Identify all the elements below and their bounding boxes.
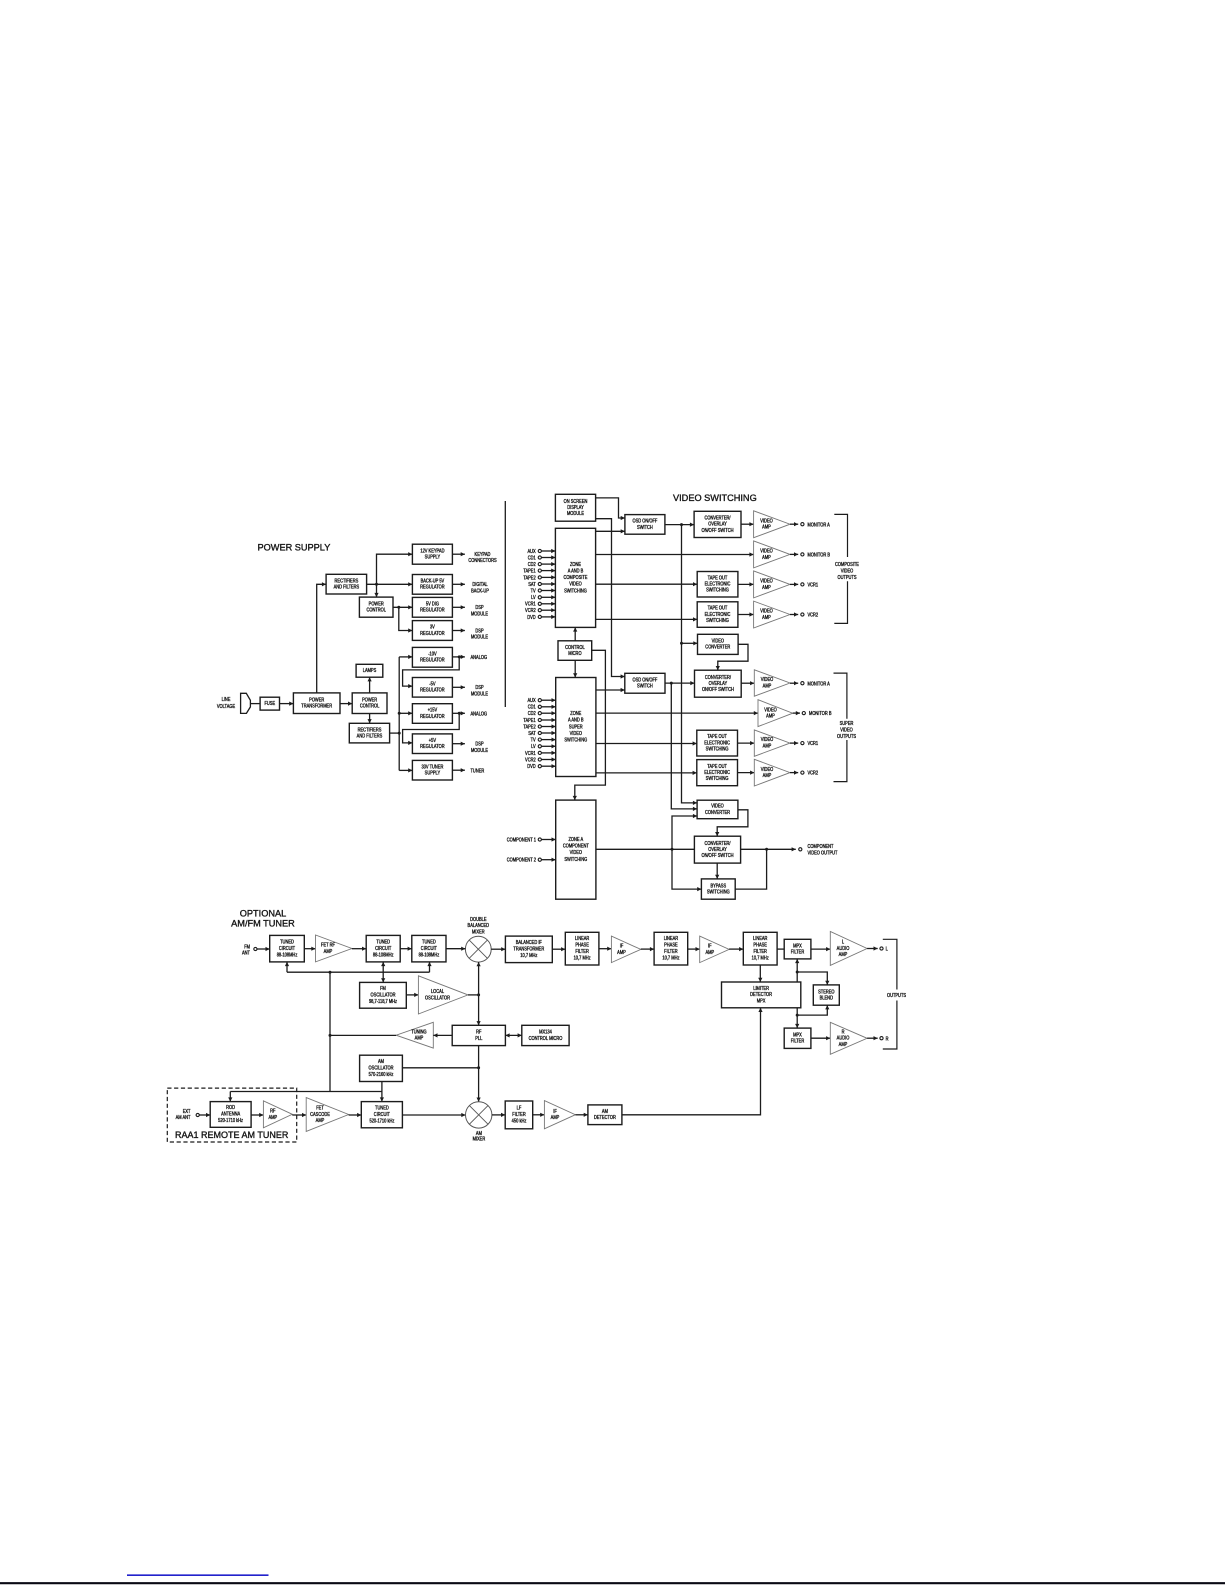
wire junction up to video converter 2 bottom input bbox=[672, 814, 697, 849]
svg-text:RECTIFIERS: RECTIFIERS bbox=[358, 727, 382, 733]
wire RF PLL down to AM mixer bbox=[477, 1046, 481, 1102]
block STEREO BLEND bbox=[813, 985, 839, 1005]
svg-text:TAPE OUT: TAPE OUT bbox=[708, 575, 728, 581]
svg-text:IF: IF bbox=[553, 1108, 557, 1114]
svg-text:ELECTRONIC: ELECTRONIC bbox=[704, 740, 730, 746]
input EXT AM ANT label bbox=[176, 1108, 191, 1120]
svg-text:DIGITAL: DIGITAL bbox=[472, 582, 488, 588]
svg-text:CONVERTER/: CONVERTER/ bbox=[704, 515, 731, 521]
video amp (composite monitor B) bbox=[754, 541, 790, 568]
svg-text:AMP: AMP bbox=[324, 948, 333, 954]
svg-text:CONTROL: CONTROL bbox=[366, 607, 386, 613]
svg-text:FUSE: FUSE bbox=[264, 701, 275, 707]
wire AM oscillator to PLL line bbox=[402, 1067, 478, 1069]
svg-text:CONVERTER: CONVERTER bbox=[705, 809, 731, 815]
amp RF AMP (AM) bbox=[263, 1101, 292, 1128]
svg-text:KEYPAD: KEYPAD bbox=[475, 552, 492, 558]
svg-text:CONVERTER/: CONVERTER/ bbox=[705, 674, 732, 680]
svg-text:SWITCHING: SWITCHING bbox=[564, 737, 587, 743]
junction bbox=[458, 655, 461, 658]
svg-text:OUTPUTS: OUTPUTS bbox=[837, 733, 856, 739]
wire to DSP module bbox=[452, 685, 465, 689]
video amp (composite VCR1) bbox=[754, 571, 790, 598]
block TAPE OUT ELECTRONIC SWITCHING (VCR2) bbox=[697, 602, 738, 628]
wire bypass output loop bbox=[735, 849, 766, 889]
block LAMPS bbox=[356, 664, 383, 677]
label MONITOR B bbox=[809, 711, 832, 717]
block POWER CONTROL (upper) bbox=[359, 597, 393, 617]
wire IF amp 2 to linear phase filter 3 bbox=[729, 947, 743, 951]
block POWER CONTROL (main) bbox=[352, 693, 387, 714]
svg-text:DSP: DSP bbox=[475, 628, 483, 634]
svg-text:AM ANT: AM ANT bbox=[176, 1115, 191, 1121]
svg-text:CD1: CD1 bbox=[528, 555, 536, 561]
junction bbox=[477, 993, 480, 996]
mixer AM mixer bbox=[466, 1102, 492, 1128]
block TAPE OUT ELECTRONIC SWITCHING (super VCR2) bbox=[697, 760, 738, 786]
svg-text:LF: LF bbox=[517, 1105, 522, 1111]
block TUNED CIRCUIT 2 88-108MHz bbox=[366, 935, 400, 962]
svg-text:REGULATOR: REGULATOR bbox=[420, 657, 445, 663]
svg-text:VIDEO: VIDEO bbox=[570, 730, 583, 736]
svg-text:AND FILTERS: AND FILTERS bbox=[334, 584, 360, 590]
wire tuned circuit 3 to mixer bbox=[446, 947, 465, 951]
svg-text:VCR1: VCR1 bbox=[525, 750, 536, 756]
wire control micro to zone composite bbox=[573, 627, 577, 640]
wire plug to fuse bbox=[250, 703, 260, 705]
wire limiter to MPX filter L and stereo blend bbox=[795, 959, 799, 982]
block RECTIFIERS AND FILTERS (lower) bbox=[349, 723, 389, 743]
svg-text:OSCILLATOR: OSCILLATOR bbox=[371, 992, 397, 998]
svg-text:VIDEO: VIDEO bbox=[761, 737, 774, 743]
svg-text:SUPPLY: SUPPLY bbox=[425, 770, 440, 776]
svg-text:VIDEO: VIDEO bbox=[569, 581, 582, 587]
svg-text:AUDIO: AUDIO bbox=[837, 945, 850, 951]
svg-text:98,7-118,7 MHz: 98,7-118,7 MHz bbox=[369, 999, 398, 1005]
block CONVERTER OVERLAY ON/OFF SWITCH (composite) bbox=[694, 511, 741, 537]
svg-text:ELECTRONIC: ELECTRONIC bbox=[705, 611, 731, 617]
svg-text:CONNECTORS: CONNECTORS bbox=[468, 558, 496, 564]
svg-text:MPX: MPX bbox=[793, 1032, 802, 1038]
svg-text:CONVERTER: CONVERTER bbox=[705, 644, 731, 650]
terminal VCR2 bbox=[801, 613, 804, 616]
wire control micro to zone component bbox=[573, 650, 606, 800]
svg-text:ON SCREEN: ON SCREEN bbox=[564, 498, 588, 504]
svg-text:AMP: AMP bbox=[839, 1041, 848, 1047]
svg-text:520-1710 kHz: 520-1710 kHz bbox=[218, 1118, 243, 1124]
svg-text:ANTENNA: ANTENNA bbox=[221, 1111, 240, 1117]
svg-text:CONTROL MICRO: CONTROL MICRO bbox=[529, 1035, 563, 1041]
block VIDEO CONVERTER (2) bbox=[697, 800, 738, 819]
wire converter overlay 3 to bypass switching bbox=[715, 863, 719, 879]
svg-text:VCR2: VCR2 bbox=[808, 612, 819, 618]
svg-text:COMPONENT 1: COMPONENT 1 bbox=[507, 837, 537, 843]
wire zone component to converter overlay 3 bbox=[596, 848, 695, 850]
wire amp output bbox=[790, 612, 798, 616]
block +5V REGULATOR bbox=[412, 734, 452, 754]
terminal FM ANT bbox=[254, 947, 257, 950]
svg-text:VOLTAGE: VOLTAGE bbox=[217, 704, 235, 710]
wire to video converter 1 bbox=[682, 641, 698, 645]
svg-text:CIRCUIT: CIRCUIT bbox=[279, 945, 295, 951]
video amp (composite monitor A) bbox=[754, 511, 790, 538]
svg-text:ZONE: ZONE bbox=[570, 561, 581, 567]
wire AM oscillator to AM tuned circuit bbox=[380, 1082, 384, 1102]
svg-text:MICRO: MICRO bbox=[568, 650, 582, 656]
svg-text:SWITCHING: SWITCHING bbox=[706, 587, 729, 593]
block ROD ANTENNA 520-1710 kHz bbox=[210, 1102, 251, 1128]
svg-text:A AND B: A AND B bbox=[568, 568, 584, 574]
wire amp output bbox=[793, 711, 800, 715]
svg-text:DISPLAY: DISPLAY bbox=[567, 505, 584, 511]
junction bbox=[329, 971, 332, 974]
label OUTPUTS bbox=[887, 993, 906, 999]
junction bbox=[458, 712, 461, 715]
wire tape out to video amp VCR2 bbox=[738, 612, 754, 616]
svg-text:LINE: LINE bbox=[222, 697, 231, 703]
svg-text:CONTROL: CONTROL bbox=[565, 644, 585, 650]
label MONITOR B bbox=[808, 552, 831, 558]
wire power control to 5V dig regulator bbox=[393, 605, 412, 609]
svg-text:LINEAR: LINEAR bbox=[753, 936, 768, 942]
svg-text:VIDEO: VIDEO bbox=[760, 578, 773, 584]
block 3V REGULATOR bbox=[412, 621, 452, 641]
svg-text:TUNED: TUNED bbox=[376, 939, 390, 945]
svg-text:MX134: MX134 bbox=[539, 1029, 552, 1035]
svg-text:AMP: AMP bbox=[762, 524, 771, 530]
block TUNED CIRCUIT AM 520-1710 kHz bbox=[361, 1102, 402, 1128]
svg-text:RF: RF bbox=[476, 1029, 482, 1035]
svg-text:ANALOG: ANALOG bbox=[471, 711, 488, 717]
wire feedback to tuned circuit 2 bbox=[381, 962, 385, 972]
section divider line bbox=[504, 501, 506, 707]
svg-text:SUPER: SUPER bbox=[840, 720, 854, 726]
svg-text:CONVERTER/: CONVERTER/ bbox=[704, 840, 731, 846]
terminal MONITOR A bbox=[801, 523, 804, 526]
svg-text:LV: LV bbox=[531, 744, 536, 750]
svg-text:CIRCUIT: CIRCUIT bbox=[374, 1112, 390, 1118]
svg-text:FILTER: FILTER bbox=[753, 949, 767, 955]
bracket super video outputs bbox=[834, 673, 847, 782]
wire OSD module to OSD switch 1 bbox=[596, 498, 625, 520]
svg-text:AMP: AMP bbox=[268, 1114, 277, 1120]
svg-text:ELECTRONIC: ELECTRONIC bbox=[704, 770, 730, 776]
wire feedback to tuned circuit 1 bbox=[285, 962, 289, 972]
wire zone super to OSD switch 2 bbox=[596, 688, 625, 692]
wire AM tuned circuit to AM mixer bbox=[402, 1113, 465, 1117]
svg-text:SAT: SAT bbox=[528, 581, 536, 587]
svg-text:10,7 MHz: 10,7 MHz bbox=[520, 953, 538, 959]
svg-text:OSD ON/OFF: OSD ON/OFF bbox=[632, 518, 657, 524]
svg-text:AMP: AMP bbox=[763, 773, 772, 779]
terminal MONITOR A super bbox=[801, 682, 804, 685]
svg-text:MODULE: MODULE bbox=[471, 691, 488, 697]
svg-text:LAMPS: LAMPS bbox=[363, 668, 377, 674]
svg-text:BACK-UP: BACK-UP bbox=[471, 588, 489, 594]
svg-text:OSD ON/OFF: OSD ON/OFF bbox=[632, 677, 657, 683]
label RAA1 REMOTE AM TUNER bbox=[175, 1130, 289, 1140]
svg-text:AM/FM TUNER: AM/FM TUNER bbox=[231, 919, 295, 929]
svg-text:CASCODE: CASCODE bbox=[310, 1111, 330, 1117]
wire mixer to balanced IF transformer bbox=[491, 947, 505, 951]
wire LF filter to IF amp bbox=[533, 1113, 545, 1117]
wire converter overlay 3 to component output bbox=[741, 847, 796, 851]
svg-text:33V TUNER: 33V TUNER bbox=[421, 764, 444, 770]
svg-text:PHASE: PHASE bbox=[753, 942, 767, 948]
wire junction to stereo blend bottom bbox=[797, 1005, 829, 1015]
svg-text:TAPE OUT: TAPE OUT bbox=[708, 605, 728, 611]
wire power control to 3V regulator bbox=[399, 607, 413, 632]
FM tuning feedback line bbox=[287, 971, 430, 973]
junction bbox=[477, 1066, 480, 1069]
svg-text:DVD: DVD bbox=[527, 614, 536, 620]
amp IF AMP 1 bbox=[611, 936, 640, 963]
wire amp output bbox=[790, 522, 798, 526]
video amp (composite VCR2) bbox=[754, 601, 790, 628]
svg-text:FET: FET bbox=[316, 1105, 324, 1111]
svg-text:OSCILLATOR: OSCILLATOR bbox=[425, 995, 451, 1001]
svg-text:LINEAR: LINEAR bbox=[575, 936, 590, 942]
block ZONE A AND B SUPER VIDEO SWITCHING bbox=[556, 678, 596, 777]
wire feedback to rod antenna bbox=[228, 1092, 232, 1102]
svg-text:LINEAR: LINEAR bbox=[664, 936, 679, 942]
svg-text:88-108MHz: 88-108MHz bbox=[277, 952, 298, 958]
label DSP MODULE bbox=[471, 628, 488, 640]
svg-text:-10V: -10V bbox=[428, 651, 436, 657]
block TAPE OUT ELECTRONIC SWITCHING (VCR1) bbox=[697, 572, 738, 598]
block MPX FILTER (L) bbox=[784, 939, 811, 959]
svg-text:LV: LV bbox=[531, 595, 536, 601]
svg-text:LOCAL: LOCAL bbox=[431, 989, 445, 995]
junction bbox=[680, 642, 683, 645]
svg-text:COMPOSITE: COMPOSITE bbox=[835, 562, 859, 568]
wire rectifiers lower to bus bbox=[390, 732, 400, 734]
video amp (super VCR2) bbox=[754, 759, 790, 786]
block ZONE A COMPONENT VIDEO SWITCHING bbox=[556, 800, 596, 899]
footer blue rule bbox=[127, 1574, 269, 1576]
wire FET RF amp to tuned circuit 2 bbox=[352, 947, 366, 951]
wire AM detector to limiter detector MPX bbox=[622, 1008, 763, 1115]
label VCR1 bbox=[808, 582, 819, 588]
wire +15V to +5V regulator bbox=[403, 713, 460, 745]
block +15V REGULATOR bbox=[412, 704, 452, 724]
wire FM ant to tuned circuit 1 bbox=[257, 947, 270, 951]
wire FM oscillator to local oscillator bbox=[406, 993, 418, 997]
terminal COMPONENT VIDEO OUTPUT bbox=[799, 848, 802, 851]
junction bbox=[398, 712, 401, 715]
svg-text:SWITCHING: SWITCHING bbox=[564, 588, 587, 594]
wire IF amp to AM detector bbox=[575, 1113, 588, 1117]
svg-text:REGULATOR: REGULATOR bbox=[420, 687, 445, 693]
svg-text:VIDEO SWITCHING: VIDEO SWITCHING bbox=[673, 493, 757, 503]
wire L amp output bbox=[867, 946, 878, 950]
svg-text:TRANSFORMER: TRANSFORMER bbox=[301, 703, 332, 709]
wire to keypad connectors bbox=[452, 552, 465, 556]
power bus vertical bbox=[398, 657, 400, 771]
svg-text:AUDIO: AUDIO bbox=[837, 1035, 850, 1041]
wire to IF amp 1 bbox=[599, 947, 612, 951]
svg-text:VIDEO: VIDEO bbox=[711, 803, 724, 809]
svg-text:ZONE A: ZONE A bbox=[568, 837, 583, 843]
wire junction to stereo blend top bbox=[797, 972, 829, 985]
svg-text:MPX: MPX bbox=[793, 943, 802, 949]
svg-text:FM: FM bbox=[380, 986, 386, 992]
svg-text:MPX: MPX bbox=[757, 998, 766, 1004]
svg-text:FM: FM bbox=[244, 944, 250, 950]
svg-text:VIDEO: VIDEO bbox=[760, 518, 773, 524]
svg-text:MODULE: MODULE bbox=[471, 611, 488, 617]
svg-text:MONITOR B: MONITOR B bbox=[808, 552, 831, 558]
svg-text:VIDEO: VIDEO bbox=[712, 638, 725, 644]
wire control micro to zone super bbox=[573, 660, 577, 677]
wire OSD switch 2 to converter overlay 2 bbox=[665, 681, 695, 685]
wire amp output bbox=[790, 552, 798, 556]
svg-text:AMP: AMP bbox=[763, 743, 772, 749]
junction bbox=[398, 732, 401, 735]
svg-text:EXT: EXT bbox=[183, 1108, 191, 1114]
svg-text:CD1: CD1 bbox=[528, 704, 536, 710]
svg-text:VIDEO OUTPUT: VIDEO OUTPUT bbox=[808, 850, 838, 856]
svg-text:ROD: ROD bbox=[226, 1105, 236, 1111]
terminal VCR1 bbox=[801, 583, 804, 586]
label DSP MODULE bbox=[471, 605, 488, 617]
wire filter 3 to MPX filter bbox=[777, 948, 784, 950]
svg-text:VIDEO: VIDEO bbox=[764, 707, 777, 713]
svg-text:520-1710 kHz: 520-1710 kHz bbox=[369, 1118, 394, 1124]
svg-text:BYPASS: BYPASS bbox=[710, 883, 726, 889]
svg-text:CIRCUIT: CIRCUIT bbox=[375, 945, 391, 951]
block OSD ON/OFF SWITCH (super) bbox=[625, 673, 665, 693]
junction bbox=[680, 523, 683, 526]
block OSD ON/OFF SWITCH (composite) bbox=[625, 515, 665, 535]
terminal VCR2 super bbox=[801, 771, 804, 774]
wire bus to 30V tuner supply bbox=[399, 768, 412, 772]
video amp (super monitor B) bbox=[758, 700, 793, 727]
wire video converter to converter overlay 2 bbox=[716, 644, 748, 670]
svg-text:COMPONENT 2: COMPONENT 2 bbox=[507, 857, 537, 863]
svg-text:SWITCH: SWITCH bbox=[637, 683, 653, 689]
label MONITOR A bbox=[808, 681, 830, 687]
block VIDEO CONVERTER (1) bbox=[698, 634, 739, 654]
svg-text:AMP: AMP bbox=[762, 615, 771, 621]
wire IF amp 1 to linear phase filter 2 bbox=[641, 947, 654, 951]
svg-text:TV: TV bbox=[531, 588, 536, 594]
svg-text:TAPE2: TAPE2 bbox=[523, 724, 536, 730]
block LINEAR PHASE FILTER 1 10,7 MHz bbox=[565, 932, 599, 965]
svg-text:VCR1: VCR1 bbox=[525, 601, 536, 607]
bracket composite video outputs bbox=[834, 514, 847, 623]
wire bus to +15V regulator bbox=[399, 711, 412, 715]
wire to digital backup bbox=[452, 582, 465, 586]
label DOUBLE BALANCED MIXER bbox=[468, 916, 490, 934]
svg-text:RF: RF bbox=[270, 1108, 276, 1114]
junction bbox=[796, 971, 799, 974]
wire zone composite to tape out 1 bbox=[596, 582, 698, 586]
svg-text:AM: AM bbox=[378, 1059, 384, 1065]
svg-text:88-108MHz: 88-108MHz bbox=[373, 952, 394, 958]
block LINEAR PHASE FILTER 2 10,7 MHz bbox=[654, 932, 688, 965]
svg-text:-5V: -5V bbox=[429, 681, 435, 687]
svg-text:MONITOR A: MONITOR A bbox=[808, 681, 830, 687]
svg-text:COMPOSITE: COMPOSITE bbox=[564, 575, 588, 581]
label TUNER bbox=[471, 768, 485, 774]
tuning voltage vertical line bbox=[329, 972, 331, 1091]
wire OSD module to OSD switch 2 bbox=[596, 519, 625, 679]
svg-text:AUX: AUX bbox=[527, 548, 535, 554]
block BALANCED IF TRANSFORMER 10,7 MHz bbox=[505, 936, 552, 963]
wire EXT AM ant to rod antenna bbox=[199, 1113, 210, 1117]
svg-text:AND FILTERS: AND FILTERS bbox=[357, 733, 383, 739]
svg-text:OUTPUTS: OUTPUTS bbox=[837, 575, 856, 581]
svg-text:TUNED: TUNED bbox=[375, 1105, 389, 1111]
wire amp output bbox=[790, 741, 798, 745]
node LINE VOLTAGE label bbox=[217, 697, 235, 710]
svg-text:VIDEO: VIDEO bbox=[840, 727, 853, 733]
svg-text:SUPPLY: SUPPLY bbox=[425, 554, 440, 560]
svg-text:TV: TV bbox=[531, 737, 536, 743]
junction bbox=[329, 1034, 332, 1037]
block LINEAR PHASE FILTER 3 10,7 MHz bbox=[743, 932, 777, 965]
label VCR2 bbox=[808, 612, 819, 618]
svg-text:VCR1: VCR1 bbox=[808, 582, 819, 588]
block CONVERTER OVERLAY ON/OFF SWITCH (component) bbox=[694, 836, 740, 863]
amp TUNING AMP bbox=[396, 1022, 433, 1048]
label DIGITAL BACK-UP bbox=[471, 582, 489, 594]
block CONVERTER OVERLAY ON/OFF SWITCH (super) bbox=[695, 670, 742, 697]
wire to DSP module bbox=[452, 628, 465, 632]
label ANALOG bbox=[471, 711, 488, 717]
mixer FM double balanced mixer bbox=[465, 936, 491, 962]
block AM OSCILLATOR 570-2160 kHz bbox=[360, 1055, 403, 1081]
svg-text:SWITCH: SWITCH bbox=[637, 524, 653, 530]
svg-text:VIDEO: VIDEO bbox=[761, 766, 774, 772]
block BACK-UP 5V REGULATOR bbox=[412, 575, 452, 595]
video amp (super VCR1) bbox=[754, 730, 790, 756]
svg-text:MIXER: MIXER bbox=[473, 1136, 486, 1142]
svg-text:RECTIFIERS: RECTIFIERS bbox=[335, 578, 359, 584]
bracket outputs bbox=[883, 939, 897, 1049]
svg-text:FILTER: FILTER bbox=[791, 1038, 805, 1044]
block POWER TRANSFORMER bbox=[293, 693, 340, 714]
block LIMITER DETECTOR MPX bbox=[722, 982, 801, 1008]
wire branch to 12V keypad supply bbox=[377, 552, 413, 584]
svg-text:MODULE: MODULE bbox=[471, 747, 488, 753]
label DSP MODULE bbox=[471, 685, 488, 697]
svg-text:SAT: SAT bbox=[528, 730, 536, 736]
svg-text:TAPE OUT: TAPE OUT bbox=[707, 734, 727, 740]
wire to analog bbox=[452, 711, 465, 715]
wire to DSP module bbox=[452, 605, 465, 609]
wire amp output bbox=[790, 771, 798, 775]
wire junction to video converter 2 middle input bbox=[671, 683, 697, 811]
svg-text:AMP: AMP bbox=[415, 1035, 424, 1041]
wire AM mixer to LF filter bbox=[492, 1113, 505, 1117]
svg-text:CIRCUIT: CIRCUIT bbox=[421, 945, 437, 951]
wire OSD switch to converter overlay 1 bbox=[665, 523, 694, 527]
terminal EXT AM ANT bbox=[196, 1113, 199, 1116]
block -10V REGULATOR bbox=[412, 647, 452, 667]
wire tape out to video amp VCR1 super bbox=[738, 741, 755, 745]
svg-text:CD2: CD2 bbox=[528, 711, 536, 717]
wire tuned circuit 2 to 3 bbox=[400, 947, 412, 951]
wire video converter 2 to converter overlay 3 bbox=[715, 810, 748, 836]
wire zone composite to OSD switch 1 bbox=[596, 529, 625, 533]
svg-text:VCR1: VCR1 bbox=[808, 741, 819, 747]
junction bbox=[796, 1014, 799, 1017]
label COMPOSITE VIDEO OUTPUTS bbox=[835, 562, 859, 581]
svg-text:3V: 3V bbox=[430, 624, 435, 630]
wire -10V to -5V regulator bbox=[403, 657, 460, 688]
